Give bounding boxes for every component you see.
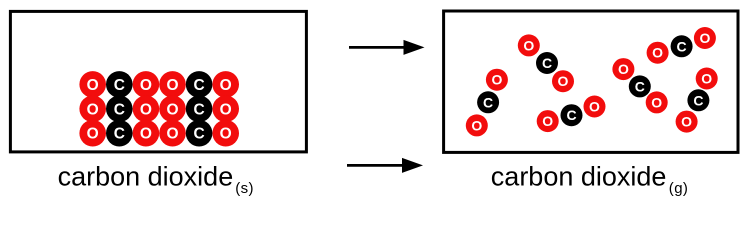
svg-text:(s): (s): [235, 180, 254, 197]
svg-text:C: C: [635, 78, 645, 94]
solid CO2 lattice row 3: [79, 120, 239, 147]
svg-text:O: O: [681, 114, 692, 130]
svg-text:O: O: [166, 101, 178, 118]
svg-text:C: C: [693, 92, 703, 108]
svg-text:C: C: [483, 94, 493, 110]
svg-text:C: C: [114, 77, 125, 94]
svg-text:O: O: [542, 113, 553, 129]
svg-text:O: O: [651, 94, 662, 110]
svg-text:C: C: [193, 77, 204, 94]
svg-text:O: O: [166, 77, 178, 94]
upper arrow: [349, 40, 425, 55]
label: carbon dioxide (s): [58, 162, 254, 197]
solid CO2 lattice row 1: [79, 71, 239, 98]
svg-text:O: O: [140, 101, 152, 118]
svg-text:O: O: [220, 77, 232, 94]
svg-text:O: O: [523, 37, 534, 53]
svg-text:O: O: [220, 126, 232, 143]
lower arrow: [347, 158, 423, 173]
svg-text:C: C: [542, 55, 552, 71]
svg-text:O: O: [491, 72, 502, 88]
svg-text:O: O: [589, 99, 600, 115]
gas-state container box: [444, 11, 738, 152]
gas CO2 molecule 3 (bottom centre): [537, 96, 606, 133]
label: carbon dioxide (g): [491, 162, 689, 197]
svg-text:O: O: [166, 126, 178, 143]
svg-text:C: C: [566, 107, 576, 123]
svg-text:O: O: [471, 117, 482, 133]
svg-text:O: O: [87, 77, 99, 94]
gas CO2 molecule 2 (top centre, diagonal): [518, 34, 574, 92]
svg-text:carbon dioxide: carbon dioxide: [58, 162, 234, 192]
svg-text:O: O: [652, 45, 663, 61]
svg-text:O: O: [140, 126, 152, 143]
gas CO2 molecule 5 (right, vertical): [676, 68, 718, 133]
svg-text:O: O: [618, 61, 629, 77]
svg-text:C: C: [677, 38, 687, 54]
svg-text:carbon dioxide: carbon dioxide: [491, 162, 667, 192]
svg-text:O: O: [87, 126, 99, 143]
gas CO2 molecule 4 (top right): [647, 27, 716, 64]
svg-text:O: O: [558, 73, 569, 89]
svg-text:(g): (g): [669, 180, 689, 197]
svg-text:C: C: [114, 101, 125, 118]
svg-text:C: C: [193, 101, 204, 118]
gas CO2 molecule 1 (lower left, diagonal): [466, 69, 508, 137]
svg-text:C: C: [193, 126, 204, 143]
svg-text:O: O: [699, 30, 710, 46]
solid CO2 lattice row 2: [79, 96, 239, 123]
solid-state container box: [10, 11, 306, 152]
svg-text:O: O: [140, 77, 152, 94]
svg-text:O: O: [87, 101, 99, 118]
gas CO2 molecule 6 (centre right, diagonal): [612, 58, 667, 113]
svg-text:C: C: [114, 126, 125, 143]
svg-text:O: O: [701, 71, 712, 87]
svg-text:O: O: [220, 101, 232, 118]
